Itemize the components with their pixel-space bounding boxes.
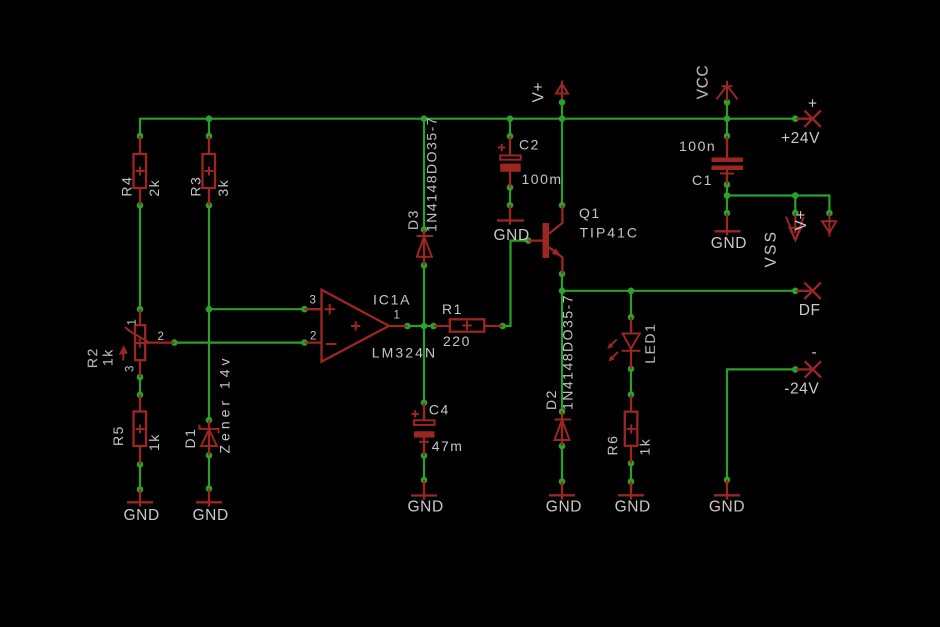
label GND col F [615,498,651,515]
node GND pin col G bottom [724,477,731,484]
resistor R5 [134,395,147,465]
label C2 name [519,137,540,153]
svg-text:V+: V+ [530,82,547,103]
node C4 pin bottom [421,452,428,459]
node R1 pin left [430,323,437,330]
svg-text:GND: GND [546,498,582,515]
wire C2 to GND [509,187,511,205]
svg-text:-: - [812,344,818,361]
label R2 name [84,347,100,368]
wire R6 to GND [630,463,632,481]
svg-text:IC1A: IC1A [373,292,411,308]
label VCC [695,65,712,100]
wire R2 wiper to op-amp pin 2 [174,342,304,344]
label IC1A name [373,292,411,308]
svg-text:1k: 1k [637,438,653,456]
transistor Q1 [528,205,562,273]
node LED1 pin bottom [628,366,635,373]
node GND pin col E [559,478,566,485]
supply symbol V- arrow 1 [786,213,804,240]
label op-amp pin 2 [310,331,317,343]
label IC1A value LM324N [372,344,438,360]
ground symbol col C [411,480,437,500]
ground symbol col F [618,482,644,500]
label R3 value 3k [215,179,231,197]
wire rail to C2 [509,119,511,137]
svg-text:1: 1 [394,310,401,322]
node output row junction Q1 [559,288,566,295]
node C2 pin bottom [507,184,514,191]
node Q1 collector pin [559,202,566,209]
node GND pin col F [628,478,635,485]
label R2 value 1k [100,348,116,366]
node R4 pin bottom [137,202,144,209]
label -24V minus [812,344,818,361]
wire rail to D3 [423,119,425,230]
node GND pin col C [421,477,428,484]
label C4 name [429,402,450,418]
wire branch down to D1 [208,309,210,420]
node Q1 base pin end [525,237,532,244]
label V+ overlay at arrow 1 [793,210,810,231]
ground symbol col E [549,482,575,500]
wire Q1 emitter to output row [561,274,563,291]
svg-text:C2: C2 [519,137,540,153]
label R1 value 220 [443,333,471,349]
label D2 name [543,389,559,410]
node Q1 emitter pin [559,271,566,278]
svg-text:+: + [808,96,818,113]
wire -24V to GND [727,369,795,479]
wire op-amp output to R1 [407,325,433,327]
wire R4 to R2 [139,205,141,309]
node D2 pin bottom [559,443,566,450]
wire rail to Q1 collector [561,119,563,206]
label LED1 name [642,323,658,364]
ground symbol col A [127,490,153,507]
node rail junction C1 [724,115,731,122]
label GND col C [408,499,444,516]
diode D2 [555,412,572,447]
svg-text:2: 2 [158,331,165,343]
node R3 pin top [206,133,213,140]
label R4 value 2k [146,179,162,197]
node R2 pin 3 [137,374,144,381]
supply symbol V+ [556,81,568,100]
svg-text:GND: GND [193,507,229,524]
label GND col E [546,498,582,515]
svg-text:2k: 2k [146,179,162,197]
svg-text:R2: R2 [84,347,100,368]
node VSS row junction [724,192,731,199]
label R2 pin 3 [124,365,136,372]
svg-text:R4: R4 [119,176,135,197]
svg-text:LED1: LED1 [642,323,658,364]
ground symbol at C2 [497,205,524,225]
pad DF [796,283,821,299]
wire output row down to LED1 [630,291,632,317]
node op-amp pin 1 end [404,323,411,330]
wire D3 to output node [423,265,425,326]
node C4 pin top [421,399,428,406]
wire R1 to Q1 base [503,241,529,326]
svg-text:VCC: VCC [695,65,712,100]
node GND pin col A [137,486,144,493]
svg-text:47m: 47m [432,438,464,454]
node rail junction C2 [507,115,514,122]
label R5 name [110,425,126,446]
capacitor C2 [498,136,521,187]
node C2 pin top [507,133,514,140]
svg-text:C4: C4 [429,402,450,418]
label D3 name [405,209,421,230]
capacitor C1 [712,136,744,185]
svg-text:TIP41C: TIP41C [580,224,639,240]
resistor R4 [134,136,147,205]
pad -24V [796,361,821,377]
resistor R3 [203,136,216,205]
node output row end at DF [792,288,799,295]
resistor R6 [625,395,638,464]
svg-text:1k: 1k [100,348,116,366]
svg-text:100n: 100n [679,138,716,154]
label GND at C1 [711,235,747,252]
node V+ pin [559,99,566,106]
svg-text:3: 3 [124,365,136,372]
node C1 pin top [724,133,731,140]
svg-text:+24V: +24V [781,130,820,147]
label Q1 value TIP41C [580,224,639,240]
label -24V [784,381,819,398]
node VSS arrow2 pin [826,210,833,217]
svg-text:R3: R3 [188,176,204,197]
node LED1 pin top [628,314,635,321]
label GND at C2 [494,227,530,244]
wire VSS row [727,196,829,214]
ground symbol col B [196,489,222,507]
svg-text:-24V: -24V [784,381,819,398]
label op-amp pin 1 [394,310,401,322]
svg-text:1k: 1k [146,433,162,451]
svg-text:220: 220 [443,333,471,349]
label R4 name [119,176,135,197]
op-amp IC1A [305,290,408,362]
node VSS row junction arrow1 [792,192,799,199]
wire rail to R3 [208,119,210,136]
node branch junction [206,306,213,313]
node R2 pin 1 [137,306,144,313]
wire output row to DF [562,290,795,292]
wire +24V top rail [140,119,795,136]
svg-text:1N4148DO35-7: 1N4148DO35-7 [560,294,576,410]
wire LED1 to R6 [630,369,632,395]
svg-text:DF: DF [799,302,821,319]
wire D1 to GND [208,455,210,488]
label C4 value 47m [432,438,464,454]
wire branch to op-amp pin 3 [209,308,305,310]
label op-amp pin 3 [310,295,317,307]
label R3 name [188,176,204,197]
svg-text:1N4148DO35-7: 1N4148DO35-7 [423,116,439,232]
wire VSS drop 1 [794,196,796,214]
node output row junction LED1 [628,288,635,295]
label D3 value 1N4148DO35-7 [423,116,439,232]
ground symbol col G bottom [714,480,740,500]
zener diode D1 [200,420,219,455]
label C1 value 100n [679,138,716,154]
svg-text:VSS: VSS [763,230,780,268]
diode D3 [417,230,434,266]
svg-text:R1: R1 [442,301,463,317]
label D2 value 1N4148DO35-7 [560,294,576,410]
label V+ [530,82,547,103]
svg-text:R5: R5 [110,425,126,446]
node D1 pin top [206,417,213,424]
LED LED1 [607,317,640,369]
svg-text:GND: GND [408,499,444,516]
ground symbol at C1 [715,213,741,236]
node D1 pin bottom [206,452,213,459]
svg-text:100m: 100m [522,171,563,187]
node VCC pin [724,99,731,106]
wire R5 to GND [139,464,141,489]
svg-text:3: 3 [310,295,317,307]
label C1 name [692,172,713,188]
node C1 pin bottom [724,181,731,188]
label +24V plus [808,96,818,113]
resistor R1 [434,319,503,331]
svg-text:2: 2 [310,331,317,343]
node GND pin col B [206,485,213,492]
node D3 pin bottom [421,262,428,269]
node output junction [421,323,428,330]
label VSS [763,230,780,268]
node GND pin col G top [724,210,731,217]
wire D2 to GND [561,446,563,482]
label R6 name [604,435,620,456]
label C2 value 100m [522,171,563,187]
node rail junction D3 [421,115,428,122]
node op-amp pin 2 end [301,339,308,346]
potentiometer R2 [119,309,175,377]
node R1 pin right [499,323,506,330]
label R2 pin 2 [158,331,165,343]
svg-text:Q1: Q1 [579,205,601,221]
label R1 name [442,301,463,317]
wire VCC to rail [726,102,728,118]
node R5 pin top [137,392,144,399]
node D3 pin top [421,226,428,233]
wire output node to C4 [423,326,425,403]
wire output row down to D2 [561,291,563,412]
svg-text:GND: GND [711,235,747,252]
supply symbol VCC [717,81,738,101]
node rail junction R3 [206,115,213,122]
svg-text:V+: V+ [793,210,810,231]
wire rail to C1 [726,119,728,136]
pad +24V [796,111,821,127]
wire R2 pin3 to R5 [139,377,141,395]
svg-text:GND: GND [709,498,745,515]
node R3 pin bottom [206,202,213,209]
label GND col B [193,507,229,524]
label R6 value 1k [637,438,653,456]
node VSS arrow1 pin [792,210,799,217]
node R4 pin top [137,133,144,140]
node R5 pin bottom [137,461,144,468]
node D2 pin top [559,408,566,415]
label R2 pin 1 [127,319,139,326]
node op-amp pin 3 end [301,306,308,313]
wire V+ to rail [561,102,563,118]
svg-text:LM324N: LM324N [372,344,438,360]
svg-text:3k: 3k [215,179,231,197]
label D1 name [182,428,198,449]
capacitor C4 [412,403,435,456]
svg-text:D3: D3 [405,209,421,230]
node -24V wire end [792,366,799,373]
node GND pin col D [507,202,514,209]
node R6 pin bottom [628,460,635,467]
svg-text:GND: GND [124,507,160,524]
label DF [799,302,821,319]
wire R3 to D1 branch [208,205,210,309]
svg-text:1: 1 [127,319,139,326]
svg-text:GND: GND [494,227,530,244]
label Q1 name [579,205,601,221]
label +24V [781,130,820,147]
svg-text:R6: R6 [604,435,620,456]
supply symbol V- arrow 2 [822,213,836,237]
svg-text:Zener 14v: Zener 14v [217,354,233,453]
svg-text:C1: C1 [692,172,713,188]
svg-text:GND: GND [615,498,651,515]
label GND col A [124,507,160,524]
wire C4 to GND [423,456,425,480]
label R5 value 1k [146,433,162,451]
node rail end at +24V [792,115,799,122]
node rail junction Q1 collector [559,115,566,122]
label D1 value Zener 14v [217,354,233,453]
node R2 wiper end [171,339,178,346]
wire C1 to VSS row and GND [726,185,728,214]
svg-text:D1: D1 [182,428,198,449]
node R6 pin top [628,391,635,398]
label GND col G bottom [709,498,745,515]
svg-text:D2: D2 [543,389,559,410]
